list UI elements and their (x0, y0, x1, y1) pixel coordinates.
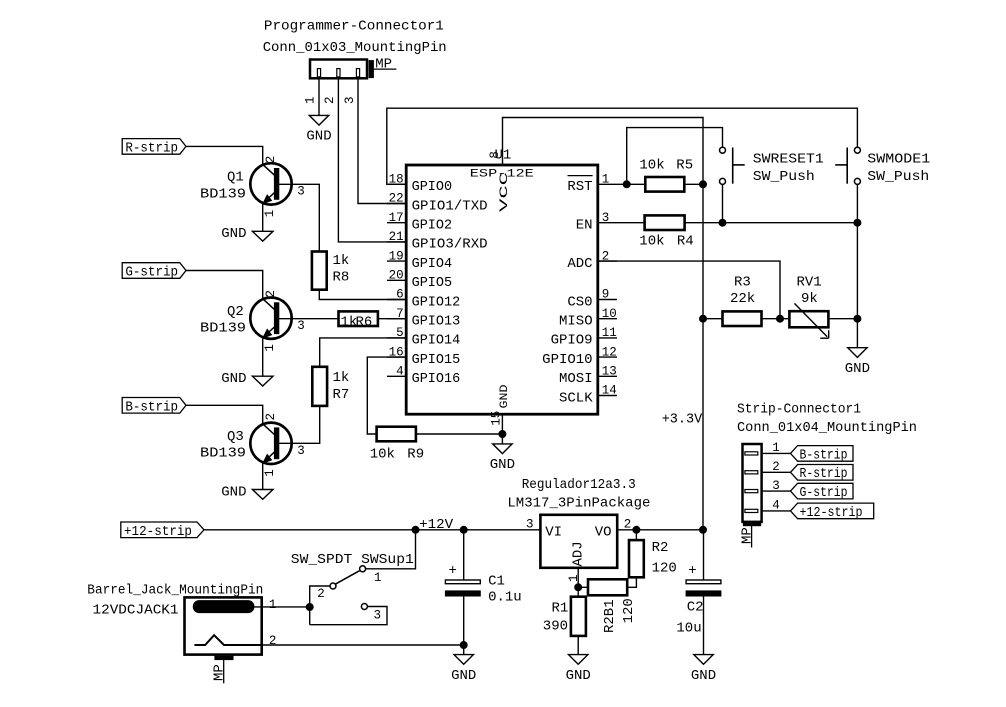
svg-text:GND: GND (566, 668, 591, 684)
switch SWRESET1 SW_Push (720, 147, 824, 223)
svg-text:120: 120 (652, 561, 677, 577)
svg-text:GPIO4: GPIO4 (412, 256, 453, 272)
svg-text:17: 17 (389, 211, 404, 225)
pin 3 EN of U1 (576, 211, 617, 234)
svg-text:1: 1 (374, 571, 382, 585)
connector 12VDCJACK1 Barrel_Jack_MountingPin (87, 583, 276, 655)
wire EN row to ground rail (617, 219, 861, 319)
wire GPIO15 to R9 (367, 357, 406, 434)
svg-text:GND: GND (490, 457, 515, 473)
svg-text:VCC: VCC (499, 171, 511, 212)
pin 7 GPIO13 of U1 (387, 307, 460, 330)
svg-text:10u: 10u (676, 621, 701, 637)
svg-text:Q2: Q2 (227, 304, 244, 320)
svg-text:R8: R8 (333, 270, 350, 286)
pin 4 of Strip-Connector1 with net label +12-strip (745, 499, 874, 521)
svg-text:3: 3 (526, 518, 534, 532)
pin 2 of Strip-Connector1 with net label R-strip (745, 460, 853, 482)
svg-text:390: 390 (543, 619, 568, 635)
net label +12-strip (left) (121, 522, 204, 540)
svg-text:GPIO9: GPIO9 (551, 333, 593, 349)
svg-text:2: 2 (317, 587, 325, 601)
mounting pin MP of Strip-Connector1 (740, 521, 761, 547)
svg-text:3: 3 (343, 96, 357, 104)
svg-text:Conn_01x04_MountingPin: Conn_01x04_MountingPin (737, 420, 917, 436)
svg-text:R9: R9 (407, 447, 424, 463)
svg-text:+12-strip: +12-strip (800, 505, 863, 521)
svg-text:10k: 10k (370, 447, 395, 463)
svg-text:SW_Push: SW_Push (867, 169, 929, 185)
wire VO output (617, 526, 706, 533)
svg-text:GND: GND (221, 484, 246, 500)
svg-text:2: 2 (772, 460, 780, 474)
svg-text:Regulador12a3.3: Regulador12a3.3 (522, 477, 636, 493)
svg-text:3: 3 (602, 211, 610, 225)
wire B-strip to Q3 collector (186, 405, 278, 424)
svg-text:R2B1: R2B1 (602, 599, 618, 633)
svg-text:+: + (449, 563, 457, 579)
svg-text:R7: R7 (333, 387, 350, 403)
svg-text:GPIO15: GPIO15 (412, 352, 461, 368)
svg-text:4: 4 (396, 365, 404, 379)
pin 3 of Strip-Connector1 with net label G-strip (745, 479, 853, 501)
svg-text:1: 1 (602, 173, 610, 187)
resistor R6 1k (339, 311, 378, 330)
wire R7 to Q3 base (277, 406, 320, 443)
svg-text:R4: R4 (677, 234, 694, 250)
svg-text:22: 22 (389, 192, 404, 206)
svg-text:1: 1 (263, 210, 277, 218)
regulator U2 Regulador12a3.3 LM317_3PinPackage (507, 477, 650, 582)
svg-text:BD139: BD139 (200, 321, 246, 337)
power label +3.3V (662, 412, 703, 428)
pin 11 GPIO9 of U1 (551, 326, 617, 349)
pin 1 wire of Programmer-Connector1 to ground (304, 78, 320, 115)
wire GPIO0 to SWMODE1 (net A) (387, 108, 858, 184)
svg-text:B-strip: B-strip (125, 399, 178, 415)
switch SWMODE1 SW_Push (835, 147, 930, 223)
svg-text:C2: C2 (687, 600, 704, 616)
svg-text:R6: R6 (356, 315, 373, 331)
pin 16 GPIO15 of U1 (387, 345, 460, 368)
wire jack pin2 to GND (262, 644, 464, 646)
svg-text:3: 3 (297, 319, 305, 333)
svg-text:12VDCJACK1: 12VDCJACK1 (93, 602, 179, 618)
svg-text:14: 14 (602, 384, 617, 398)
ground GND under R1 (566, 636, 591, 684)
svg-text:LM317_3PinPackage: LM317_3PinPackage (507, 496, 650, 512)
wire R9 to GND junction (416, 433, 503, 435)
wire R6 to GPIO13 (378, 318, 406, 320)
svg-text:GND: GND (221, 226, 246, 242)
resistor R5 10k (639, 158, 693, 192)
svg-text:G-strip: G-strip (125, 265, 178, 281)
svg-text:18: 18 (389, 173, 404, 187)
svg-text:9: 9 (602, 288, 610, 302)
svg-text:ADJ: ADJ (571, 541, 587, 566)
pin 9 CS0 of U1 (567, 288, 617, 311)
svg-text:MP: MP (212, 664, 228, 681)
svg-text:1: 1 (304, 96, 318, 104)
svg-text:VI: VI (545, 525, 562, 541)
svg-text:8: 8 (488, 151, 502, 159)
power label +12V (412, 517, 454, 533)
transistor Q1 BD139 (200, 163, 305, 231)
svg-text:R5: R5 (676, 158, 693, 174)
svg-text:EN: EN (576, 218, 593, 234)
resistor R9 10k (370, 427, 424, 463)
pin 21 GPIO3/RXD of U1 (387, 230, 488, 253)
wire jack pin1 to SWSup1 common (250, 586, 387, 625)
svg-text:9k: 9k (801, 291, 818, 307)
svg-text:GPIO0: GPIO0 (412, 179, 453, 195)
svg-text:C1: C1 (488, 574, 505, 590)
ground GND right of RV1 (845, 315, 870, 377)
svg-text:GPIO2: GPIO2 (412, 218, 453, 234)
ground GND under programmer pin 1 (306, 115, 331, 144)
svg-text:MISO: MISO (559, 314, 593, 330)
svg-text:Strip-Connector1: Strip-Connector1 (737, 401, 861, 417)
svg-text:GND: GND (691, 668, 716, 684)
svg-text:GPIO12: GPIO12 (412, 294, 461, 310)
svg-text:Barrel_Jack_MountingPin: Barrel_Jack_MountingPin (87, 583, 263, 599)
svg-text:19: 19 (389, 249, 404, 263)
ground GND under Q1 (221, 226, 273, 242)
svg-text:GND: GND (451, 668, 476, 684)
svg-text:ADC: ADC (567, 256, 592, 272)
svg-text:R1: R1 (552, 601, 569, 617)
pin 19 GPIO4 of U1 (387, 249, 452, 272)
svg-text:20: 20 (389, 269, 404, 283)
svg-text:4: 4 (772, 499, 780, 513)
wire Q1 base to R8 (277, 184, 320, 251)
wire ADC to divider (598, 261, 784, 322)
svg-text:1: 1 (263, 344, 277, 352)
net label G-strip (122, 263, 186, 281)
resistor R3 22k (703, 274, 789, 326)
svg-text:GPIO13: GPIO13 (412, 314, 461, 330)
svg-text:MP: MP (375, 56, 392, 72)
svg-text:1k: 1k (333, 370, 350, 386)
wire RST row (617, 181, 707, 188)
resistor R7 1k (312, 367, 349, 406)
net label B-strip (122, 398, 186, 416)
pin 2 ADC of U1 (567, 249, 617, 272)
svg-text:RST: RST (567, 179, 592, 195)
pin 20 GPIO5 of U1 (387, 269, 452, 292)
svg-text:15: 15 (489, 411, 503, 426)
pin 1 RST of U1 (567, 173, 617, 196)
svg-text:SW_SPDT SWSup1: SW_SPDT SWSup1 (291, 552, 414, 568)
svg-text:MP: MP (740, 527, 756, 544)
pin 10 MISO of U1 (559, 307, 617, 330)
svg-text:SWMODE1: SWMODE1 (867, 151, 930, 167)
svg-text:0.1u: 0.1u (488, 590, 522, 606)
svg-text:R-strip: R-strip (800, 466, 848, 482)
svg-text:2: 2 (264, 413, 278, 421)
transistor Q3 BD139 (200, 423, 305, 490)
resistor R1 390 (543, 597, 586, 636)
pin 13 MOSI of U1 (559, 365, 617, 388)
svg-text:BD139: BD139 (200, 186, 246, 202)
op-amp/IC U1 ESP-12E body (406, 147, 598, 414)
svg-text:22k: 22k (730, 291, 755, 307)
wire VCC to +3.3V rail (net B) (503, 118, 704, 185)
svg-text:GPIO10: GPIO10 (542, 352, 592, 368)
pin 22 GPIO1/TXD of U1 (387, 192, 488, 215)
svg-text:B-strip: B-strip (800, 447, 848, 463)
svg-text:Conn_01x03_MountingPin: Conn_01x03_MountingPin (263, 40, 447, 56)
svg-text:2: 2 (323, 96, 337, 104)
wire ADJ pin (575, 568, 582, 597)
svg-text:SWRESET1: SWRESET1 (753, 151, 824, 167)
transistor Q2 BD139 (200, 298, 305, 377)
ground GND under Q3 (221, 484, 273, 500)
wire RST to SWRESET1 top (net C) (627, 128, 723, 185)
wire SWSup1 pin1 to +12V (366, 530, 416, 569)
pin 14 SCLK of U1 (559, 384, 617, 407)
pin 5 GPIO14 of U1 (387, 326, 460, 349)
svg-text:GPIO1/TXD: GPIO1/TXD (412, 198, 488, 214)
svg-text:GPIO5: GPIO5 (412, 275, 453, 291)
svg-text:3: 3 (374, 609, 382, 623)
pin 1 of Strip-Connector1 with net label B-strip (745, 441, 853, 463)
wire +12V row (204, 529, 540, 531)
net label R-strip (122, 139, 186, 157)
svg-text:1: 1 (772, 441, 780, 455)
wire GPIO14 to R7 (320, 338, 407, 367)
svg-text:+12V: +12V (419, 517, 454, 533)
wire R-strip to Q1 collector (186, 146, 278, 164)
svg-text:10: 10 (602, 307, 617, 321)
svg-text:1k: 1k (333, 253, 350, 269)
svg-text:11: 11 (602, 326, 617, 340)
svg-text:+12-strip: +12-strip (124, 524, 192, 540)
capacitor C1 0.1u (445, 530, 521, 645)
pin 18 GPIO0 of U1 (387, 173, 452, 196)
connector Programmer-Connector1 Conn_01x03_MountingPin (263, 19, 447, 79)
svg-text:BD139: BD139 (200, 446, 246, 462)
svg-text:R3: R3 (734, 274, 751, 290)
svg-text:1: 1 (263, 469, 277, 477)
svg-text:SW_Push: SW_Push (753, 169, 815, 185)
svg-text:+: + (688, 563, 696, 579)
resistor R8 1k (312, 252, 349, 290)
svg-text:VO: VO (595, 525, 612, 541)
svg-text:12: 12 (602, 345, 617, 359)
pin 4 GPIO16 of U1 (387, 365, 460, 388)
svg-text:3: 3 (297, 185, 305, 199)
svg-text:GND: GND (221, 371, 246, 387)
resistor R4 10k (639, 215, 693, 249)
pin 6 GPIO12 of U1 (387, 288, 460, 311)
svg-text:3: 3 (772, 479, 780, 493)
svg-text:GPIO3/RXD: GPIO3/RXD (412, 237, 488, 253)
ground GND under C1 (451, 642, 476, 684)
svg-text:GND: GND (499, 384, 511, 408)
mounting pin MP of 12VDCJACK1 (212, 656, 234, 683)
mounting pin MP of Programmer-Connector1 (369, 56, 396, 77)
svg-text:R-strip: R-strip (125, 140, 178, 156)
svg-text:SCLK: SCLK (559, 390, 593, 406)
svg-text:G-strip: G-strip (800, 485, 848, 501)
svg-text:RV1: RV1 (797, 274, 822, 290)
svg-text:10k: 10k (639, 158, 664, 174)
wire Q2 base to R6 (277, 318, 339, 320)
svg-text:Programmer-Connector1: Programmer-Connector1 (264, 19, 444, 35)
svg-text:120: 120 (621, 598, 637, 623)
svg-text:MOSI: MOSI (559, 371, 593, 387)
resistor R2B1 120 (578, 577, 637, 633)
ground GND under C2 (691, 655, 716, 684)
svg-text:+3.3V: +3.3V (662, 412, 703, 428)
wire R8 to GPIO12 (319, 290, 406, 300)
svg-text:10k: 10k (639, 234, 664, 250)
resistor R2 120 (629, 530, 677, 578)
ground GND under Q2 (221, 371, 273, 387)
connector Strip-Connector1 Conn_01x04_MountingPin (737, 401, 917, 522)
wire programmer pin 2 to GPIO3/RXD (323, 78, 406, 242)
svg-text:GPIO16: GPIO16 (412, 371, 461, 387)
svg-text:Q3: Q3 (227, 429, 244, 445)
capacitor C2 10u (676, 530, 720, 655)
svg-text:GND: GND (845, 361, 870, 377)
pin 15 GND of U1 and ground symbol (489, 411, 515, 473)
svg-text:Q1: Q1 (227, 170, 244, 186)
svg-text:GPIO14: GPIO14 (412, 333, 461, 349)
svg-text:3: 3 (297, 444, 305, 458)
wire G-strip to Q2 collector (186, 271, 278, 299)
pin 17 GPIO2 of U1 (387, 211, 452, 234)
wire +3.3V rail vertical (700, 184, 707, 530)
pin 12 GPIO10 of U1 (542, 345, 617, 368)
svg-text:21: 21 (389, 230, 404, 244)
node C1 top junction (460, 526, 467, 533)
svg-text:GND: GND (306, 129, 331, 145)
svg-text:R2: R2 (652, 540, 669, 556)
wire programmer pin 3 to GPIO1/TXD (343, 78, 406, 203)
potentiometer RV1 9k (789, 274, 857, 338)
svg-text:1: 1 (269, 598, 277, 612)
svg-text:CS0: CS0 (567, 294, 592, 310)
svg-text:2: 2 (269, 634, 277, 648)
svg-text:13: 13 (602, 365, 617, 379)
switch SWSup1 SW_SPDT (291, 552, 414, 623)
